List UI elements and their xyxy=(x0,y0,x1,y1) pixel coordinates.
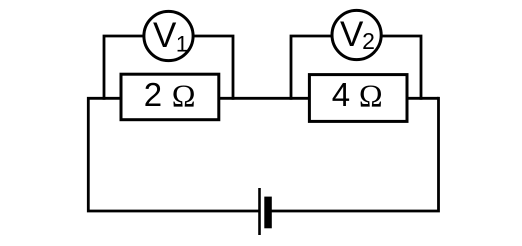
voltmeter U1 circle xyxy=(144,11,193,60)
svg-text:1: 1 xyxy=(176,32,188,57)
svg-text:4: 4 xyxy=(332,76,350,113)
svg-text:V: V xyxy=(153,16,177,55)
wire: voltmeter V2 loop (stub x=291, horizontal y=36, stub x=421) xyxy=(291,36,421,100)
wire: right vertical, bottom-right from battery xyxy=(268,97,439,211)
battery B1 long thin plate xyxy=(258,188,261,235)
battery B1 short thick plate xyxy=(264,197,272,229)
resistor R1 box 2 ohm xyxy=(121,74,219,120)
wire: voltmeter V1 loop (stub x=104, horizontal y=36, stub x=233) xyxy=(104,36,233,100)
svg-text:2: 2 xyxy=(362,28,375,54)
svg-text:2: 2 xyxy=(144,76,162,113)
svg-text:Ω: Ω xyxy=(359,78,383,114)
resistor R2 box 4 ohm xyxy=(309,75,407,122)
wire: top rail, left vertical, bottom-left to battery xyxy=(88,98,438,211)
voltmeter U2 circle xyxy=(332,10,381,59)
svg-text:Ω: Ω xyxy=(172,78,196,114)
svg-text:V: V xyxy=(340,15,364,54)
